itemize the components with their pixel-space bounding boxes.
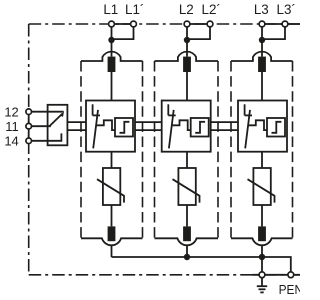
ground symbol bar 3 bbox=[260, 291, 263, 293]
switch lever from common contact bbox=[50, 114, 63, 126]
lower disconnect device (filled rectangle) bbox=[258, 226, 266, 241]
triggered spark gap unit U2 (box) bbox=[162, 101, 211, 152]
terminal PE (to earth) bbox=[259, 272, 265, 278]
protection module 1 boundary bottom edge with wire bridge arc bbox=[81, 238, 143, 245]
wire: trigger pulse line (step waveform) bbox=[96, 120, 115, 130]
spark gap electrode (horizontal stroke) bbox=[245, 114, 252, 116]
terminal 11 bbox=[26, 123, 32, 129]
step-function symbol inside trigger box bbox=[272, 122, 282, 133]
wire: terminal 11 (common) into switch bbox=[32, 125, 51, 127]
svg-text:L1´: L1´ bbox=[125, 2, 144, 17]
wire: bridge arc low point down to PE bus bbox=[186, 245, 188, 257]
wire: varistor down to lower disconnect bbox=[111, 205, 113, 226]
junction dot L3/L3&#180; bbox=[259, 37, 265, 43]
device enclosure boundary (dash-dot top edge) bbox=[29, 23, 300, 25]
protection module 3 boundary (dashed left edge) bbox=[230, 61, 232, 238]
terminal L2 bbox=[184, 21, 190, 27]
wire: L3&#180; terminal down and left to junction bbox=[262, 27, 285, 39]
thermal disconnect device F2 (filled rectangle) bbox=[183, 57, 191, 72]
wire: solid bottom boundary segment through PE/PEN terminals bbox=[253, 274, 301, 276]
wire: solid boundary segment L1-L1&#180; bbox=[112, 23, 134, 25]
wire: spark gap box down to varistor bbox=[261, 152, 263, 168]
protection module 3 boundary top edge with wire bridge arc bbox=[231, 52, 293, 61]
wire: varistor down to lower disconnect bbox=[186, 205, 188, 226]
terminal L3 bbox=[259, 21, 265, 27]
spark gap electrode (horizontal stroke) bbox=[93, 114, 100, 116]
svg-text:14: 14 bbox=[4, 134, 18, 149]
spark gap electrode (vertical stroke) bbox=[167, 104, 169, 115]
wire: module 1 to module 2 link (upper) bbox=[135, 121, 162, 123]
device enclosure boundary (dash-dot bottom edge) bbox=[29, 274, 300, 276]
wire: junction down to module 1 bridge dome apex bbox=[111, 40, 113, 57]
trigger electronics box bbox=[115, 118, 133, 137]
wire: L2 terminal down to junction bbox=[186, 27, 188, 40]
wire: L2&#180; terminal down and left to junction bbox=[187, 27, 210, 39]
thermal disconnect device F3 (filled rectangle) bbox=[258, 57, 266, 72]
wire: disconnect down to spark gap box bbox=[111, 72, 113, 101]
junction dot L1/L1&#180; bbox=[108, 37, 114, 43]
spark gap moving electrode (long diagonal) bbox=[93, 110, 98, 148]
junction dot L2/L2&#180; bbox=[184, 37, 190, 43]
wire: spark gap box down to varistor bbox=[111, 152, 113, 168]
varistor diagonal stroke with tail bbox=[97, 179, 124, 202]
protection module 1 boundary top edge with wire bridge arc bbox=[81, 52, 143, 61]
wire: solid boundary segment L3-L3&#180; bbox=[262, 23, 285, 25]
wire: module 2 to module 3 link (lower) bbox=[211, 129, 238, 131]
svg-text:11: 11 bbox=[5, 119, 19, 134]
wire: trigger pulse line (step waveform) bbox=[248, 120, 267, 130]
wire: L1 terminal down to junction bbox=[111, 27, 113, 40]
triggered spark gap unit U3 (box) bbox=[238, 101, 287, 152]
protection module 2 boundary bottom edge with wire bridge arc bbox=[155, 238, 219, 245]
wire: junction down to module 3 bridge dome apex bbox=[261, 40, 263, 57]
protection module 1 boundary (dashed left edge) bbox=[80, 61, 82, 238]
wire: L3 terminal down to junction bbox=[261, 27, 263, 40]
wire: junction down to module 2 bridge dome apex bbox=[186, 40, 188, 57]
svg-text:L2´: L2´ bbox=[202, 2, 221, 17]
wire: bridge arc low point down to PE bus bbox=[111, 245, 113, 257]
terminal L2&#180; bbox=[207, 21, 213, 27]
wire: module 2 to module 3 link (upper) bbox=[211, 121, 238, 123]
thermal disconnect device F1 (filled rectangle) bbox=[108, 57, 116, 72]
device enclosure boundary (dash-dot left edge) bbox=[28, 24, 30, 275]
protection module 3 boundary (dashed right edge) bbox=[292, 61, 294, 238]
wire: L1&#180; terminal down and left to junction bbox=[112, 27, 134, 39]
protection module 2 boundary top edge with wire bridge arc bbox=[155, 52, 219, 61]
varistor RV1 (rectangle) bbox=[103, 168, 120, 205]
ground symbol stem bbox=[261, 278, 263, 287]
wire: varistor down to lower disconnect bbox=[261, 205, 263, 226]
varistor RV3 (rectangle) bbox=[253, 168, 270, 205]
varistor diagonal stroke with tail bbox=[173, 179, 200, 202]
wire: trigger pulse line (step waveform) bbox=[172, 120, 191, 130]
terminal 14 bbox=[26, 138, 32, 144]
step-function symbol inside trigger box bbox=[120, 122, 130, 133]
spark gap moving electrode (long diagonal) bbox=[169, 110, 174, 148]
switch lever arrow tip bbox=[59, 112, 64, 117]
varistor RV2 (rectangle) bbox=[178, 168, 195, 205]
spark gap electrode (horizontal stroke) bbox=[168, 114, 175, 116]
ground symbol bar 1 bbox=[257, 285, 267, 287]
spark gap electrode (vertical stroke) bbox=[244, 104, 246, 115]
wire: disconnect down to spark gap box bbox=[186, 72, 188, 101]
junction dot module 3 / bus bbox=[259, 254, 265, 260]
wire: bridge arc low point down to PE bus bbox=[261, 245, 263, 257]
svg-text:L3: L3 bbox=[254, 2, 269, 17]
svg-text:PEN: PEN bbox=[279, 283, 300, 297]
protection module 3 boundary bottom edge with wire bridge arc bbox=[231, 238, 293, 245]
lower disconnect device (filled rectangle) bbox=[108, 226, 116, 241]
wire: bus junction down to PE terminal bbox=[261, 257, 263, 272]
trigger electronics box bbox=[267, 118, 285, 137]
wire: boundary segment right of L3&#180; bbox=[285, 23, 300, 25]
trigger electronics box bbox=[191, 118, 209, 137]
wire: module 1 to module 2 link (lower) bbox=[135, 129, 162, 131]
varistor diagonal stroke with tail bbox=[248, 179, 275, 202]
ground symbol bar 2 bbox=[259, 288, 266, 290]
wire: solid boundary segment L2-L2&#180; bbox=[187, 23, 210, 25]
protection module 2 boundary (dashed right edge) bbox=[217, 61, 219, 238]
terminal L3&#180; bbox=[282, 21, 288, 27]
wire: remote contact link to module 1 (lower) bbox=[67, 129, 86, 131]
step-function symbol inside trigger box bbox=[195, 122, 205, 133]
remote signalling changeover switch S1 (box) bbox=[48, 105, 68, 146]
terminal L1 bbox=[109, 21, 115, 27]
terminal L1&#180; bbox=[131, 21, 137, 27]
terminal PEN bbox=[288, 272, 294, 278]
junction dot module 2 / bus bbox=[184, 254, 190, 260]
svg-text:L1: L1 bbox=[103, 2, 118, 17]
wire: common PE bus bbox=[112, 257, 291, 272]
wire: spark gap box down to varistor bbox=[186, 152, 188, 168]
lower disconnect device (filled rectangle) bbox=[183, 226, 191, 241]
wire: disconnect down to spark gap box bbox=[261, 72, 263, 101]
protection module 2 boundary (dashed left edge) bbox=[154, 61, 156, 238]
svg-text:L3´: L3´ bbox=[277, 2, 296, 17]
spark gap electrode (vertical stroke) bbox=[92, 104, 94, 115]
wire: terminal 12 to NO contact bbox=[32, 111, 64, 113]
protection module 1 boundary (dashed right edge) bbox=[142, 61, 144, 238]
svg-text:L2: L2 bbox=[179, 2, 194, 17]
wire: solid left boundary segment through contacts 12-11-14 bbox=[28, 108, 30, 144]
wire: terminal 14 to NC contact bbox=[32, 133, 62, 140]
svg-text:12: 12 bbox=[4, 104, 18, 119]
spark gap moving electrode (long diagonal) bbox=[245, 110, 250, 148]
triggered spark gap unit U1 (box) bbox=[86, 101, 135, 152]
terminal 12 bbox=[26, 109, 32, 115]
wire: remote contact link to module 1 (upper) bbox=[67, 121, 86, 123]
